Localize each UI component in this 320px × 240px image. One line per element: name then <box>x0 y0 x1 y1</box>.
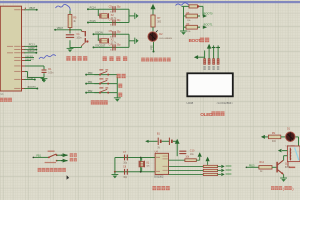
label PIR module text <box>38 168 66 172</box>
transistor base wire <box>246 165 259 168</box>
ground reset <box>67 48 74 52</box>
net arrow person <box>57 159 68 163</box>
ground rotated <box>129 38 139 44</box>
capacitor bottom <box>109 42 122 51</box>
blue annotation 3V3 reset <box>56 4 71 10</box>
crystal wires <box>98 9 129 22</box>
crystal X <box>99 13 117 19</box>
net label BOOT0 pin <box>1 86 39 96</box>
net label PB5 <box>152 42 155 53</box>
reset button K1 <box>70 30 89 48</box>
crystal X <box>99 38 117 45</box>
resistor R7 <box>151 15 162 27</box>
resistor R9 <box>184 24 198 33</box>
label OLED text <box>200 111 224 118</box>
MCU U1 main chip <box>0 6 21 91</box>
LED D1 red <box>281 127 296 147</box>
buttons common wire + ground <box>114 75 121 102</box>
capacitor C8 <box>123 166 128 179</box>
OLED display screen <box>187 73 233 96</box>
power arrow clock <box>175 139 180 156</box>
blue annotation 32.768 <box>39 55 56 59</box>
push button row 1 <box>85 69 117 75</box>
MCU pin stubs <box>22 10 26 89</box>
wire LED to relay <box>296 137 299 146</box>
label relay disinfect text <box>271 186 294 191</box>
crystal wires <box>98 34 129 47</box>
ground rotated <box>129 13 139 19</box>
capacitor C10 <box>179 149 195 155</box>
label plus text <box>118 84 122 88</box>
resistor R8 <box>184 13 198 22</box>
net names clock pins <box>226 165 232 174</box>
label person text <box>70 158 77 162</box>
PIR switch wire <box>33 155 49 159</box>
resistor R12 led <box>268 132 280 143</box>
resistor R14 <box>259 161 277 173</box>
power arrow resistor pack <box>206 157 210 165</box>
label crystal circuit text <box>103 56 128 61</box>
OLED refdes text <box>187 101 234 105</box>
DS1302 chip U3 <box>154 151 168 179</box>
label set text <box>117 74 126 78</box>
transistor Q1 <box>277 160 291 174</box>
capacitor top <box>109 29 122 38</box>
net label VBAT on wire <box>54 27 70 31</box>
net label crystal top <box>87 7 98 11</box>
collector wire <box>284 156 288 161</box>
ground clock crystal <box>112 172 119 179</box>
label clock module text <box>152 186 169 190</box>
push button row 2 <box>85 78 117 84</box>
net label crystal top <box>93 32 103 36</box>
power arrow R10 <box>198 152 202 160</box>
wire loop to cap D1 <box>25 66 44 78</box>
junction boot <box>197 5 199 7</box>
resistor pack R11 R12 R13 <box>169 165 225 176</box>
net arrow no person <box>57 153 68 157</box>
OLED header pins <box>194 44 220 70</box>
emitter wire + ground <box>280 174 287 182</box>
mouse cursor <box>67 175 70 180</box>
label main chip text <box>0 98 12 102</box>
capacitor bottom <box>109 18 122 27</box>
ground below D1 <box>41 79 48 83</box>
wire R5 to node <box>69 28 71 34</box>
label no person text <box>70 153 77 157</box>
OSC32 pin wires <box>25 56 34 61</box>
net label pin PA <box>24 77 45 81</box>
label BOOT circuit text <box>189 38 210 43</box>
label minus text <box>118 93 122 97</box>
net label crystal bottom <box>93 45 106 49</box>
capacitor C1 <box>66 33 82 39</box>
label reset circuit text <box>66 56 87 61</box>
net arrow BOOT0 <box>197 11 213 17</box>
crystal X4 <box>139 158 150 172</box>
net arrow relay coil <box>278 149 288 153</box>
blue annotation 3V3 boot <box>176 3 190 6</box>
resistor R5 <box>68 11 77 28</box>
clock crystal wires <box>114 157 155 173</box>
resistor R10 <box>169 157 200 162</box>
resistor R6 top <box>189 5 197 8</box>
net arrow LED red left <box>261 135 269 139</box>
net label VBAT pin 1 <box>24 7 37 11</box>
LED D2 <box>148 27 172 41</box>
net arrow BOOT1 <box>197 23 213 29</box>
net labels PC13 RTC pins <box>24 44 37 54</box>
boot wires <box>182 6 204 30</box>
capacitor C7 <box>123 151 128 164</box>
wire cap to ground <box>69 40 71 48</box>
relay RL1 <box>287 146 300 168</box>
push button row 3 <box>85 87 117 93</box>
battery B1 <box>145 132 177 149</box>
capacitor top <box>109 4 122 13</box>
junction node <box>69 29 71 31</box>
label independent keys text <box>91 100 108 104</box>
net label crystal bottom <box>87 20 98 24</box>
power arrow top <box>150 4 155 15</box>
label run indicator text <box>141 58 170 62</box>
ground boot <box>180 31 187 35</box>
switch SW-SPDT <box>45 151 58 163</box>
capacitor D1 <box>42 68 55 74</box>
